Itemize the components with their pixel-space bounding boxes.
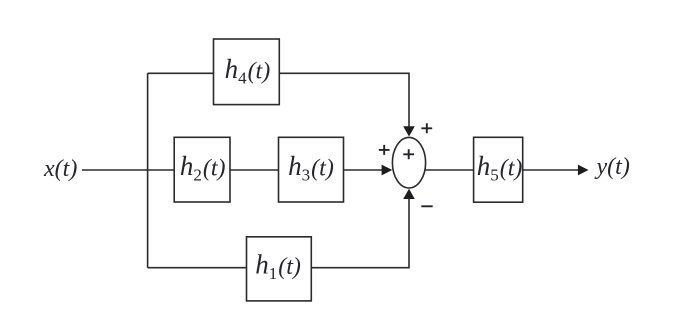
wire input x(t) to h2: [82, 169, 174, 171]
svg-text:h1(t): h1(t): [255, 250, 301, 284]
arrowhead into summing junction top: [403, 126, 415, 136]
block h5(t): [474, 137, 523, 202]
svg-text:h3(t): h3(t): [288, 151, 334, 185]
sign plus inside summing junction: [403, 149, 414, 159]
wire h1 to summing corner: [311, 197, 409, 268]
svg-text:h2(t): h2(t): [180, 151, 226, 185]
wire bottom branch to h1: [148, 267, 247, 269]
sign plus top input: [421, 123, 432, 133]
block h1(t): [247, 237, 312, 301]
sign minus bottom input: [421, 205, 432, 207]
svg-text:h5(t): h5(t): [477, 151, 523, 185]
summing junction U1: [392, 137, 425, 188]
svg-text:h4(t): h4(t): [225, 54, 271, 88]
block h4(t): [214, 39, 280, 105]
block h3(t): [279, 137, 344, 202]
wire h4 to summing corner: [279, 73, 409, 128]
arrowhead into summing junction left: [382, 165, 393, 176]
wire h3 to summing junction: [344, 169, 384, 171]
wire h2 to h3: [230, 169, 279, 171]
wire top branch to h4: [148, 72, 214, 74]
wire summing junction to h5: [426, 169, 474, 171]
svg-text:y(t): y(t): [595, 154, 630, 180]
sign plus left input: [379, 145, 390, 155]
block h2(t): [174, 137, 230, 202]
arrowhead output y(t): [578, 165, 589, 176]
svg-text:x(t): x(t): [43, 156, 77, 182]
wire h5 to output y(t): [523, 169, 579, 171]
arrowhead into summing junction bottom: [403, 189, 415, 199]
wire branch vertical: [147, 73, 149, 267]
